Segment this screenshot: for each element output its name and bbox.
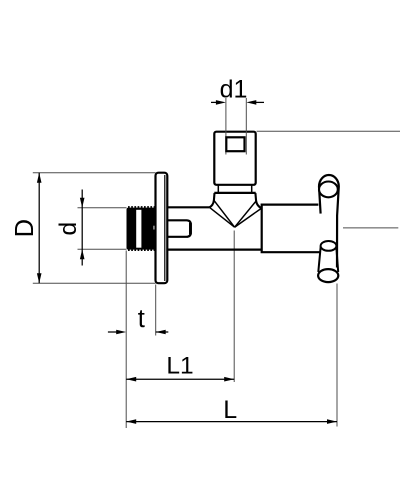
handle top arm outer xyxy=(319,175,339,267)
d extension lines xyxy=(78,207,127,209)
svg-text:L: L xyxy=(223,396,237,424)
dimension D xyxy=(38,173,40,284)
left extension line (thread face) for t, L1, L xyxy=(125,251,127,429)
collar left flare xyxy=(209,193,214,207)
valve bonnet xyxy=(214,132,255,185)
svg-text:D: D xyxy=(11,219,39,237)
dimension L xyxy=(126,421,337,423)
vertical centerline / L1 right extension xyxy=(233,231,235,383)
horizontal centerline right of handle xyxy=(343,227,398,229)
inlet stub end cap xyxy=(189,223,192,235)
handle bottom arm end face xyxy=(318,269,338,282)
t right extension line (rosette face) xyxy=(155,285,157,336)
dimension t xyxy=(108,331,168,333)
dimension d xyxy=(81,190,83,266)
svg-text:L1: L1 xyxy=(166,353,193,380)
leader line from bonnet top to right edge xyxy=(257,130,400,132)
body tube bottom edge (left) xyxy=(167,249,261,251)
spindle square d1 xyxy=(226,137,244,151)
body tube top edge (left) xyxy=(167,206,209,208)
svg-text:t: t xyxy=(138,305,145,333)
L right extension line (handle edge) xyxy=(336,284,338,427)
handle bottom arm sides xyxy=(318,247,320,273)
handle bottom arm top ellipse xyxy=(321,241,337,251)
bonnet neck sides xyxy=(217,185,219,193)
D extension lines xyxy=(33,172,156,174)
cone lines to apex xyxy=(209,200,261,227)
dimension L1 xyxy=(126,378,234,380)
thread white notch xyxy=(154,226,156,230)
inlet stub xyxy=(167,220,191,237)
wall rosette (flange) xyxy=(156,173,168,284)
rosette face line xyxy=(164,175,166,281)
d1 extension lines xyxy=(225,98,227,155)
thread serration bottom xyxy=(128,249,156,251)
thread white band xyxy=(136,210,141,248)
handle top arm end face xyxy=(319,182,338,198)
svg-text:d1: d1 xyxy=(220,75,248,103)
svg-text:d: d xyxy=(55,222,82,236)
dimension d1 xyxy=(211,101,264,103)
thread (male) black block xyxy=(127,208,156,250)
body right section xyxy=(262,205,320,253)
thread serration top xyxy=(128,206,156,208)
collar right flare xyxy=(255,193,261,208)
collar top edge xyxy=(214,192,255,194)
